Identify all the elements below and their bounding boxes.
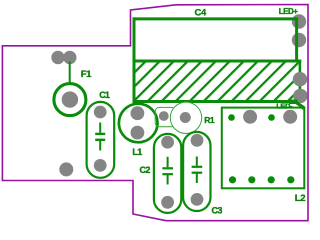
svg-text:R1: R1: [204, 115, 215, 125]
svg-text:C4: C4: [195, 7, 208, 18]
svg-text:L2: L2: [295, 193, 305, 204]
svg-text:LED-: LED-: [276, 102, 293, 111]
svg-text:C3: C3: [212, 206, 223, 216]
svg-text:LED+: LED+: [279, 7, 299, 16]
svg-text:C2: C2: [140, 165, 151, 175]
svg-text:L1: L1: [132, 147, 142, 157]
svg-text:F1: F1: [81, 69, 92, 80]
svg-text:C1: C1: [99, 90, 110, 100]
